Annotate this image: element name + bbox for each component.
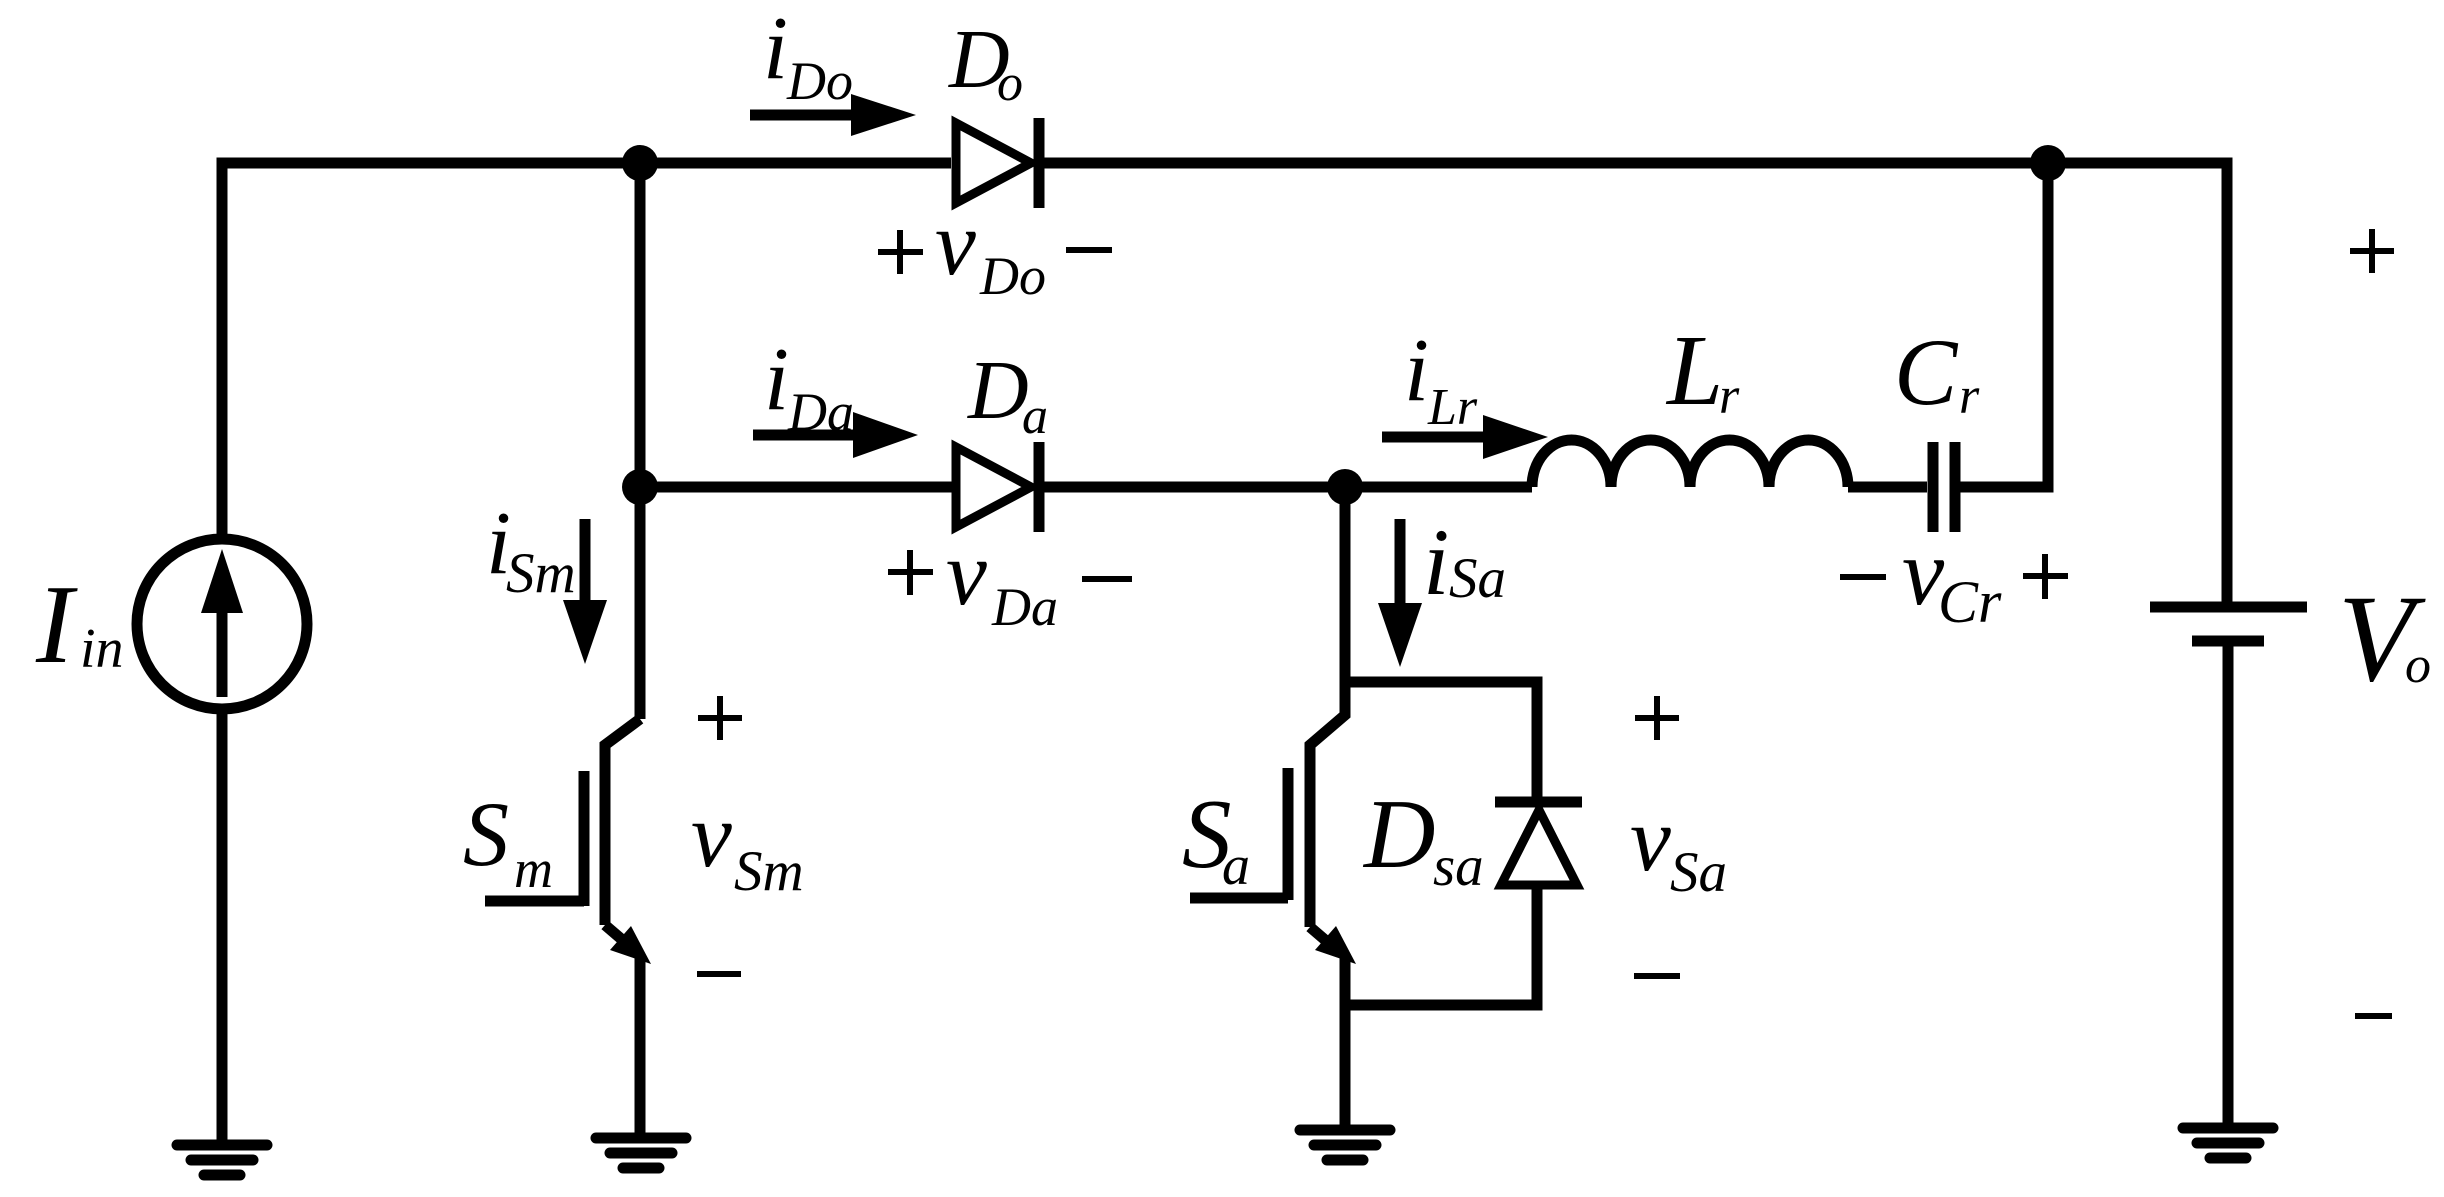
svg-text:Sa: Sa <box>1670 841 1727 904</box>
svg-text:v: v <box>691 784 732 886</box>
svg-text:o: o <box>2405 637 2431 694</box>
svg-text:v: v <box>1630 788 1671 890</box>
svg-text:m: m <box>514 839 553 899</box>
svg-text:v: v <box>935 192 976 294</box>
svg-text:I: I <box>35 563 78 687</box>
svg-text:Cr: Cr <box>1938 569 2002 635</box>
svg-text:Sm: Sm <box>734 840 804 903</box>
svg-text:L: L <box>1665 314 1723 426</box>
svg-text:i: i <box>763 0 788 98</box>
svg-text:i: i <box>1404 321 1429 420</box>
svg-text:Da: Da <box>991 577 1058 637</box>
svg-text:a: a <box>1222 835 1250 897</box>
svg-text:S: S <box>463 783 509 885</box>
svg-text:Lr: Lr <box>1427 379 1478 436</box>
svg-text:sa: sa <box>1433 835 1484 898</box>
svg-text:D: D <box>1362 780 1436 889</box>
svg-text:i: i <box>1423 509 1449 615</box>
svg-text:Sm: Sm <box>506 542 576 605</box>
svg-text:Sa: Sa <box>1449 547 1506 610</box>
svg-text:D: D <box>967 344 1029 437</box>
svg-text:Da: Da <box>787 382 854 442</box>
svg-text:C: C <box>1894 319 1959 425</box>
svg-text:Do: Do <box>786 51 853 111</box>
svg-text:Do: Do <box>979 246 1046 306</box>
svg-text:in: in <box>80 618 124 680</box>
svg-text:o: o <box>997 55 1023 112</box>
svg-text:v: v <box>946 522 987 624</box>
svg-text:a: a <box>1022 388 1048 445</box>
svg-text:i: i <box>764 330 789 429</box>
svg-text:r: r <box>1959 368 1980 425</box>
svg-text:r: r <box>1719 368 1740 425</box>
